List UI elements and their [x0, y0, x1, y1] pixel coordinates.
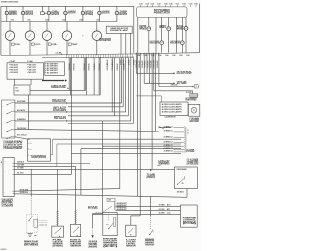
ground arrow mid [91, 235, 93, 238]
svg-text:FUSE BLOCK: FUSE BLOCK [52, 101, 66, 103]
svg-text:(PCM): (PCM) [183, 223, 198, 225]
indicator lamp R1-3 [184, 27, 188, 31]
wire brake pressure switch drop [150, 196, 151, 197]
svg-text:IND: IND [159, 27, 166, 29]
oil sender symbol [73, 228, 79, 233]
wire low coolant sloped long [14, 194, 187, 198]
wire A5 [84, 58, 86, 91]
fuel sender symbol [54, 229, 60, 234]
svg-text:ENGINE: ENGINE [103, 239, 118, 241]
wire right sender corner [131, 215, 140, 217]
relay box [28, 139, 51, 161]
gear selector display box [106, 26, 132, 33]
svg-text:35 DK GRN: 35 DK GRN [20, 189, 29, 191]
cluster connector edge right [185, 127, 187, 153]
coolant temp sender box [103, 213, 117, 236]
wire B3 long vertical to lower connector [119, 58, 121, 189]
wire R5 x147 [146, 53, 148, 74]
fuel gauge sender box [52, 226, 64, 237]
wire stair S3 from pin P2 [125, 58, 127, 112]
inner switch box [34, 219, 38, 227]
svg-text:33 DK BLU: 33 DK BLU [20, 192, 29, 194]
svg-text:C210: C210 [108, 200, 111, 202]
svg-text:31 VIO: 31 VIO [159, 209, 165, 211]
svg-text:PUMP) CONN: PUMP) CONN [2, 204, 14, 206]
wire R1 x136.3 [135, 53, 137, 74]
connector arrow on P3 wire [66, 120, 68, 122]
fuel meter assembly box [3, 158, 14, 197]
svg-text:CONNECTOR IS: CONNECTOR IS [3, 143, 22, 145]
wire M4 y148.7 [81, 148, 181, 150]
wire cluster left border [0, 6, 2, 55]
wire R2 x137.4 long to park brake [136, 53, 138, 197]
svg-text:GROUND: GROUND [89, 245, 98, 247]
indicator lamp R2-1 [160, 41, 164, 45]
gauge G5 [96, 22, 98, 31]
wire oil sender hatch [74, 211, 76, 212]
wire B2 mid vertical [114, 58, 116, 116]
svg-text:CLOSED W/: CLOSED W/ [39, 220, 48, 222]
indicator lamp L6 [98, 6, 100, 11]
indicator lamp L3 [48, 6, 50, 11]
indicator lamp L7 [116, 6, 118, 11]
connector pin P3 [6, 122, 7, 123]
arrow wire AR2 hot at all times [144, 82, 173, 84]
svg-text:150 BLK: 150 BLK [177, 192, 184, 194]
wire module feed corner [136, 95, 161, 97]
svg-text:DIMMER FEED: DIMMER FEED [51, 87, 66, 89]
wire vertical x80.9 [80, 149, 82, 196]
wire sub-box1 drop right [30, 79, 32, 85]
svg-text:CONVENIENCE: CONVENIENCE [31, 155, 46, 157]
wire ground dashed lower [92, 228, 94, 235]
gauge G4 connector box [68, 43, 71, 45]
wire R9 x158.9 to ground arrow [158, 53, 160, 87]
svg-text:SENSOR: SENSOR [70, 245, 81, 247]
svg-text:39 PNK: 39 PNK [17, 101, 26, 103]
arrow wire AR1 hot in run [136, 72, 173, 74]
svg-text:G103: G103 [89, 241, 98, 243]
wire A9 [99, 58, 101, 95]
wire R8 x153.8 to dimmer resistor [153, 53, 155, 91]
wire dimmer feed y90.8 [154, 90, 193, 92]
wire stair S4 [127, 58, 129, 116]
wire oil sender drop [75, 166, 77, 210]
wire w2 y166.4 [14, 165, 75, 167]
wire PCM 2 [116, 210, 181, 212]
wire M3 y146.2 [102, 145, 181, 147]
wire park brake box drop [186, 189, 188, 198]
oil pressure sender box [71, 224, 81, 236]
svg-text:CONTROL: CONTROL [183, 220, 196, 222]
wire horizontal y95 from junction box [30, 94, 100, 96]
svg-text:IGN: IGN [16, 88, 18, 90]
svg-text:MODULE: MODULE [183, 221, 196, 223]
svg-text:G: G [196, 86, 197, 88]
indicator lamp L5 [82, 6, 84, 11]
svg-text:ODOMETER: ODOMETER [99, 40, 111, 42]
ground reference box G110 [194, 85, 198, 88]
svg-text:150 BLK: 150 BLK [95, 211, 101, 213]
instrument cluster printed circuit box [137, 7, 187, 18]
wire R6 x149.6 [149, 53, 151, 84]
park brake switch box [175, 167, 198, 189]
printed circuit junction box [14, 85, 30, 95]
svg-text:PRESSURE: PRESSURE [70, 242, 81, 244]
svg-text:PRESSURE: PRESSURE [145, 241, 154, 243]
cluster connector dashed right [183, 126, 185, 153]
connector pin ticks right [135, 53, 137, 56]
brake fluid level switch box dashed [27, 215, 38, 233]
svg-text:PRINTED CIRCUIT: PRINTED CIRCUIT [154, 13, 170, 15]
brake fluid level switch [28, 220, 29, 221]
wire fuel sender shield hatch [56, 211, 58, 212]
svg-text:FUEL METER: FUEL METER [2, 199, 14, 201]
indicator lamp R1-2 [167, 27, 171, 31]
wire M6 vertical x155.5 [155, 53, 157, 132]
svg-text:FUEL: FUEL [15, 44, 21, 46]
connector pin P2 [6, 113, 7, 114]
wire w1 y163.5 [14, 163, 90, 165]
wire M2 y144 [57, 143, 181, 145]
cigar lighter symbol [191, 107, 197, 113]
wire ground spur y214.3 corner [93, 212, 103, 214]
ground brake fluid [27, 233, 32, 235]
wire M1 y139.2 [53, 138, 181, 140]
svg-text:IND: IND [139, 29, 146, 31]
cluster sub-box 1 [7, 63, 44, 79]
indicator lamp R2-2 [180, 41, 184, 45]
wire brake fluid drop [30, 169, 32, 196]
wire A8 [98, 58, 100, 95]
connector arrow on P1 wire [66, 102, 68, 104]
connector pin ticks [66, 55, 68, 58]
wire coolant sloped [14, 189, 120, 192]
gauge G1 connector box [11, 43, 14, 45]
wire fuel sender drop [57, 169, 59, 211]
wire connector lower edge [42, 56, 134, 59]
wire A3 long vertical [70, 58, 72, 175]
wire gear box drops [120, 33, 122, 54]
connector pin column [114, 201, 116, 210]
svg-text:LEVEL SWITCH: LEVEL SWITCH [24, 243, 38, 245]
wire R4 x144.2 [143, 53, 145, 84]
svg-text:OIL: OIL [52, 44, 58, 46]
connector pin P4 [6, 131, 7, 132]
wire B1 mid vertical [111, 58, 113, 112]
svg-text:SWITCH: SWITCH [145, 244, 154, 246]
wire park brake lamp switch symbol [159, 127, 164, 129]
right sender symbol [128, 228, 133, 233]
wire stair S5 from pin P3 [130, 58, 132, 121]
wire mid bus [1, 21, 117, 23]
wire R3 x140.2 long [139, 53, 141, 216]
indicator lamp L1 [6, 6, 8, 11]
wire stair S6 [132, 58, 134, 124]
dimmer resistor element [190, 94, 198, 98]
svg-text:ENGINE OIL: ENGINE OIL [70, 240, 81, 242]
svg-text:IND: IND [177, 29, 184, 31]
wire drops from printed circuit box [148, 17, 150, 26]
wire stair S1 dark [121, 58, 123, 103]
gauge G3 [46, 22, 48, 31]
svg-text:150 BLK: 150 BLK [17, 162, 24, 164]
coolant sender resistor [113, 218, 115, 226]
svg-text:FLUID OK: FLUID OK [39, 225, 48, 227]
cluster dimming module box [160, 102, 188, 115]
ground spur arrow mid [150, 169, 152, 171]
svg-text:FLUID LOW: FLUID LOW [39, 221, 49, 223]
svg-text:INSTRUMENT CLUSTER (W/ GAUGES): INSTRUMENT CLUSTER (W/ GAUGES) [1, 1, 18, 4]
gauge G1 [9, 22, 11, 31]
indicator lamp L2 [22, 6, 24, 11]
svg-text:31 VIO: 31 VIO [17, 173, 24, 175]
wire sub-box1 drop left [14, 79, 16, 85]
cigar lighter box [188, 104, 200, 116]
svg-text:(W/ TIMER): (W/ TIMER) [85, 14, 93, 16]
wire oil y174.4 [14, 173, 71, 175]
wire from junction box right [30, 89, 85, 91]
callout pointer line [102, 206, 113, 213]
cluster sub-box 2 [45, 62, 65, 75]
indicator lamp L4 [64, 6, 66, 11]
gauge G3 connector box [48, 43, 51, 45]
gauge G2 [29, 22, 31, 31]
connector label box mid [107, 198, 115, 201]
gauge G2 connector box [31, 43, 34, 45]
wire pin P5 into relay box [15, 137, 30, 140]
wire cluster bottom edge left [1, 54, 134, 56]
connector pin P5 [6, 138, 7, 139]
bulkhead connector C100 box [2, 100, 15, 138]
svg-text:OPEN W/: OPEN W/ [39, 223, 49, 225]
svg-text:VOLTS: VOLTS [35, 44, 41, 46]
wire stair S2 [122, 58, 124, 107]
powertrain control module box [181, 205, 198, 227]
wire pin P4 to right sloped [15, 129, 156, 131]
svg-text:TO C210: TO C210 [88, 208, 98, 210]
wire cluster divider 2 [137, 17, 139, 52]
wire A1 down to wire y90.4 [68, 58, 70, 91]
wire PCM 3 [93, 213, 181, 215]
svg-text:35 GRN: 35 GRN [159, 213, 165, 215]
svg-text:(RIGHT): (RIGHT) [89, 246, 99, 248]
wire ground spur y86.5 [159, 86, 193, 88]
wire vertical x102.3 to coolant sender [101, 121, 103, 213]
svg-text:FUEL: FUEL [53, 240, 64, 242]
svg-text:LEVEL: LEVEL [126, 243, 136, 245]
coolant sender switch [108, 228, 109, 229]
wire junction drop x28.5 [28, 95, 30, 130]
svg-text:ENGINE: ENGINE [89, 243, 98, 245]
svg-text:TEMP: TEMP [72, 44, 78, 46]
svg-text:9 BRN: 9 BRN [17, 119, 26, 121]
svg-text:CENTER (BUZZER): CENTER (BUZZER) [31, 157, 47, 159]
wire cluster right border [198, 4, 200, 53]
brake pressure warning switch [149, 234, 150, 235]
svg-text:FUSE: FUSE [16, 91, 19, 93]
wire A7 [93, 58, 95, 95]
wire A4 [83, 58, 85, 91]
wire M5 y153.4 [71, 152, 181, 154]
wire fuel gauge y169.3 long [14, 168, 174, 170]
connector pin P1 [6, 104, 7, 105]
svg-text:C12: C12 [167, 213, 171, 215]
wire R7 x152.1 to park brake box [151, 53, 153, 170]
connector arrow on P2 wire [66, 111, 68, 113]
wire cluster bottom edge right [134, 53, 199, 54]
wire cluster top bus [1, 5, 134, 7]
ground bus dark band [42, 80, 64, 82]
coolant sender internal dashed [108, 214, 110, 222]
svg-text:(W/ FUEL: (W/ FUEL [2, 202, 14, 204]
gauge G4 [66, 22, 68, 31]
svg-text:8 GRY: 8 GRY [17, 110, 26, 112]
wire A2 down to wire y95 [69, 58, 71, 95]
indicator lamp R1-1 [147, 27, 151, 31]
right sender box [126, 225, 136, 236]
resistor R1 beside oil lamp [41, 12, 45, 15]
svg-text:67 LT BLU: 67 LT BLU [17, 135, 27, 137]
svg-text:SENDER: SENDER [53, 244, 63, 246]
svg-text:CONN: CONN [186, 151, 194, 153]
wire PCM 1 [116, 205, 181, 207]
svg-text:SENSOR: SENSOR [126, 245, 136, 247]
svg-text:SIDE OF ENGINE: SIDE OF ENGINE [3, 146, 22, 148]
wire cluster divider [133, 6, 135, 52]
wire A6 [86, 58, 88, 95]
svg-text:8 GRY: 8 GRY [186, 92, 192, 94]
park brake switch [177, 184, 178, 185]
